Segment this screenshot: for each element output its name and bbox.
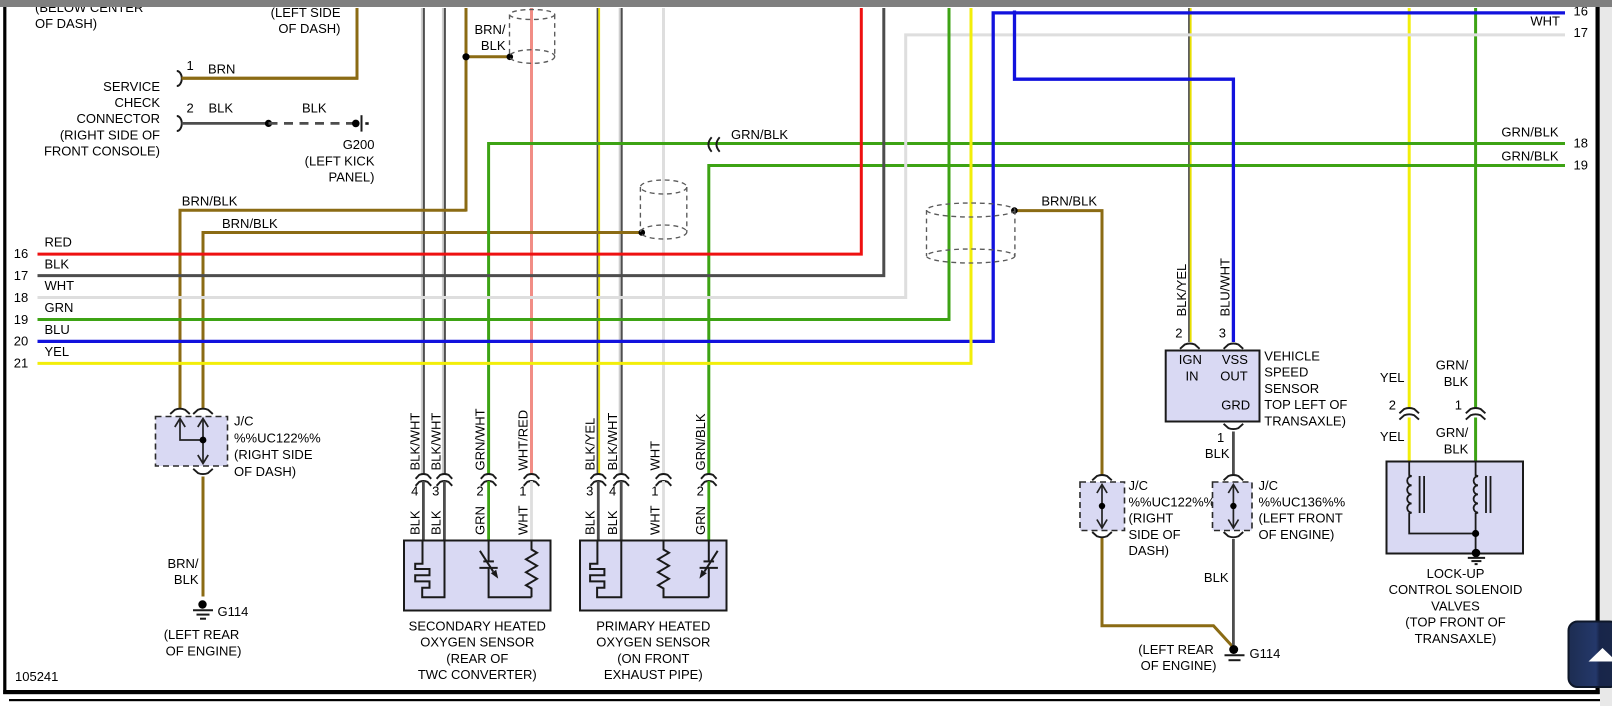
- svg-text:LOCK-UP: LOCK-UP: [1427, 566, 1485, 581]
- svg-text:OF ENGINE): OF ENGINE): [1259, 527, 1335, 542]
- in-line connector arcs secondary O2 pin 1: [524, 474, 540, 486]
- svg-text:GRD: GRD: [1221, 398, 1250, 413]
- sensing element primary (variable with arrow): [700, 541, 718, 598]
- top gray bar: [0, 0, 1612, 7]
- svg-text:BLK/WHT: BLK/WHT: [428, 413, 443, 471]
- frame bottom thin line: [9, 699, 1600, 701]
- J/C left internal junction dot: [200, 437, 207, 444]
- wire BLK secondary pin 3 below connector: [443, 481, 446, 541]
- heater element primary: [590, 541, 621, 598]
- in-line connector arcs on YEL wire: [1399, 408, 1419, 420]
- svg-text:19: 19: [1574, 158, 1588, 173]
- svg-text:SIDE OF: SIDE OF: [1129, 527, 1181, 542]
- svg-text:BLK: BLK: [582, 510, 597, 535]
- svg-text:21: 21: [14, 356, 28, 371]
- svg-text:18: 18: [1574, 136, 1588, 151]
- svg-text:EXHAUST PIPE): EXHAUST PIPE): [604, 667, 703, 682]
- svg-text:BLU: BLU: [45, 322, 70, 337]
- svg-text:WHT: WHT: [1530, 14, 1560, 29]
- svg-text:BLK: BLK: [45, 256, 70, 271]
- wire 21 YEL bus: [38, 8, 972, 363]
- svg-text:BRN: BRN: [208, 62, 235, 77]
- svg-text:WHT: WHT: [648, 441, 663, 471]
- connector arc below J/C UC136: [1224, 532, 1244, 537]
- wire GRN/BLK vertical to lock-up solenoid pin 1: [1474, 8, 1477, 408]
- svg-text:BRN/: BRN/: [167, 556, 198, 571]
- label BRN/BLK: [167, 556, 198, 587]
- wire BRN/BLK from J/C left to ground G114: [202, 477, 205, 597]
- svg-text:BRN/BLK: BRN/BLK: [182, 194, 238, 209]
- svg-text:VSS: VSS: [1222, 352, 1248, 367]
- svg-text:4: 4: [609, 484, 616, 499]
- junction connector J/C UC122 right instance box: [1080, 482, 1125, 531]
- svg-text:3: 3: [432, 484, 439, 499]
- heater element secondary: [415, 541, 444, 598]
- wire GRN/BLK 18 horizontal from right edge, down to secondary O2 sensor pin 2: [489, 144, 1565, 474]
- svg-text:(LEFT KICK: (LEFT KICK: [305, 153, 375, 168]
- J/C UC136 internal arrows: [1228, 485, 1238, 529]
- resistor primary: [658, 541, 709, 598]
- wire BLK secondary pin 4 below connector: [422, 481, 425, 541]
- wire BLK service connector pin 2 solid segment: [182, 122, 269, 125]
- connector arc below J/C UC122 right: [1092, 532, 1112, 537]
- wire BLU/WHT branch from wire 16 to vehicle speed sensor pin 3: [1015, 11, 1234, 343]
- svg-text:1: 1: [1455, 398, 1462, 413]
- label LOCK-UP CONTROL SOLENOID VALVES (TOP FRONT OF TRANSAXLE): [1389, 566, 1523, 646]
- svg-text:OF ENGINE): OF ENGINE): [1141, 658, 1217, 673]
- label G200 (LEFT KICK PANEL): [305, 137, 375, 184]
- wire BLK primary pin 4 below connector: [620, 481, 623, 541]
- svg-text:J/C: J/C: [1129, 478, 1149, 493]
- label J/C %%UC136%% (LEFT FRONT OF ENGINE): [1259, 478, 1346, 542]
- svg-text:SENSOR: SENSOR: [1264, 381, 1319, 396]
- svg-text:BLK: BLK: [481, 38, 506, 53]
- svg-text:BLK: BLK: [605, 510, 620, 535]
- wire GRN secondary pin 2 below connector: [487, 481, 490, 541]
- wire 18 WHT bus to right edge label 17: [38, 35, 1566, 298]
- wire WHT secondary pin 1 below connector: [530, 481, 533, 541]
- wire BLK/YEL vertical to primary O2 sensor pin 3: [598, 8, 600, 474]
- connector arc vehicle speed sensor pin 3: [1224, 344, 1244, 349]
- svg-text:G114: G114: [1250, 646, 1281, 661]
- wire BLK dashed segment to G200: [269, 122, 354, 125]
- svg-text:OXYGEN SENSOR: OXYGEN SENSOR: [420, 635, 534, 650]
- svg-text:IN: IN: [1186, 368, 1199, 383]
- connector arc above J/C left pin B: [193, 409, 213, 414]
- svg-text:IGN: IGN: [1179, 352, 1202, 367]
- wire GRN/BLK 19 horizontal from right edge, down to primary O2 sensor pin 2: [709, 166, 1565, 474]
- svg-text:BLK/WHT: BLK/WHT: [407, 413, 422, 471]
- svg-text:TRANSAXLE): TRANSAXLE): [1264, 413, 1346, 428]
- svg-text:4: 4: [411, 484, 418, 499]
- svg-text:BRN/: BRN/: [474, 22, 505, 37]
- svg-text:BRN/BLK: BRN/BLK: [1041, 193, 1097, 208]
- J/C UC122 right internal dot: [1099, 503, 1105, 509]
- svg-text:YEL: YEL: [1380, 370, 1405, 385]
- junction dot on BRN vertical: [462, 53, 469, 60]
- wire BRN/BLK from connector C2 to J/C UC122 right pin: [203, 233, 642, 409]
- labels IGN IN / VSS OUT / GRD: [1179, 352, 1250, 413]
- connector arc above J/C left pin A: [170, 409, 190, 414]
- svg-text:BLK: BLK: [302, 101, 327, 116]
- svg-text:18: 18: [14, 290, 28, 305]
- lock-up control solenoid valves box: [1387, 462, 1524, 554]
- svg-text:CONTROL SOLENOID: CONTROL SOLENOID: [1389, 582, 1523, 597]
- svg-text:SECONDARY HEATED: SECONDARY HEATED: [409, 618, 546, 633]
- svg-text:YEL: YEL: [1380, 429, 1405, 444]
- svg-text:OXYGEN SENSOR: OXYGEN SENSOR: [596, 635, 710, 650]
- svg-text:OF DASH): OF DASH): [278, 21, 340, 36]
- svg-text:2: 2: [1389, 398, 1396, 413]
- wire BLK/WHT vertical to primary O2 sensor pin 4: [620, 8, 622, 474]
- label J/C %%UC122%% (RIGHT SIDE OF DASH): [1129, 478, 1216, 558]
- solenoid coil left: [1407, 462, 1475, 534]
- svg-text:OF DASH): OF DASH): [35, 16, 97, 31]
- wire 19 GRN bus: [38, 8, 950, 320]
- wire BRN/BLK from J/C UC122 right instance to ground G114: [1102, 537, 1233, 647]
- in-line connector arcs primary O2 pin 4: [613, 474, 629, 486]
- terminal dot at connector C1: [507, 54, 514, 61]
- svg-text:BLK: BLK: [1444, 441, 1469, 456]
- wire BRN/BLK from junction to J/C UC122 left pin: [180, 210, 467, 408]
- svg-text:1: 1: [519, 484, 526, 499]
- connector arc above J/C UC136: [1224, 475, 1244, 480]
- wire BRN branch to dashed connector C1: [466, 55, 510, 58]
- junction dot inside solenoid box: [1472, 530, 1479, 537]
- pin numbers secondary 4 3 2 1: [411, 484, 526, 499]
- wire BRN vertical from (LEFT SIDE OF DASH) to service connector pin 1: [182, 8, 358, 78]
- svg-text:BLK: BLK: [1444, 374, 1469, 389]
- svg-text:3: 3: [1219, 326, 1226, 341]
- svg-text:(LEFT FRONT: (LEFT FRONT: [1259, 511, 1343, 526]
- svg-text:2: 2: [697, 484, 704, 499]
- svg-text:OUT: OUT: [1220, 368, 1248, 383]
- svg-text:PRIMARY HEATED: PRIMARY HEATED: [596, 618, 710, 633]
- svg-text:(ON FRONT: (ON FRONT: [617, 651, 689, 666]
- svg-text:RED: RED: [45, 235, 72, 250]
- in-line connector arcs primary O2 pin 1: [656, 474, 672, 486]
- svg-text:J/C: J/C: [234, 414, 254, 429]
- svg-text:SPEED: SPEED: [1264, 365, 1308, 380]
- svg-text:BLK: BLK: [407, 510, 422, 535]
- svg-text:GRN: GRN: [693, 506, 708, 535]
- service check connector pin 2 terminal: [177, 116, 182, 131]
- svg-text:105241: 105241: [15, 669, 58, 684]
- svg-text:(LEFT SIDE: (LEFT SIDE: [271, 5, 341, 20]
- svg-text:GRN/BLK: GRN/BLK: [1501, 149, 1558, 164]
- svg-text:1: 1: [651, 484, 658, 499]
- label PRIMARY HEATED OXYGEN SENSOR (ON FRONT EXHAUST PIPE): [596, 618, 710, 682]
- svg-text:TRANSAXLE): TRANSAXLE): [1415, 631, 1497, 646]
- svg-text:(LEFT REAR: (LEFT REAR: [164, 627, 240, 642]
- in-line connector arcs primary O2 pin 3: [591, 474, 607, 486]
- svg-text:DASH): DASH): [1129, 543, 1169, 558]
- J/C UC122 right internal arrows: [1097, 485, 1107, 529]
- svg-text:G200: G200: [343, 137, 375, 152]
- wire BRN service connector pin 1: [182, 77, 359, 80]
- svg-text:(RIGHT SIDE OF: (RIGHT SIDE OF: [60, 127, 160, 142]
- svg-text:BLK/WHT: BLK/WHT: [605, 413, 620, 471]
- svg-text:16: 16: [14, 246, 28, 261]
- wire BRN/BLK from connector C3 to J/C UC122 right instance: [1014, 211, 1102, 475]
- frame bottom border: [3, 690, 1600, 694]
- svg-text:BLK: BLK: [428, 510, 443, 535]
- svg-text:(RIGHT SIDE: (RIGHT SIDE: [234, 447, 313, 462]
- wire 20 BLU bus to right edge label 16: [38, 13, 1566, 342]
- svg-text:BLK: BLK: [1205, 446, 1230, 461]
- label BRN/BLK at dashed connector C1: [474, 22, 505, 53]
- frame left border: [3, 7, 6, 694]
- ground G114 left: [193, 600, 213, 618]
- resistor secondary: [526, 541, 537, 598]
- svg-text:3: 3: [586, 484, 593, 499]
- terminal dot at connector C3: [1011, 207, 1018, 214]
- svg-text:GRN/: GRN/: [1436, 358, 1469, 373]
- wire YEL vertical to lock-up solenoid pin 2: [1408, 8, 1411, 408]
- service check connector pin 1 terminal: [177, 71, 182, 86]
- label J/C %%UC122%% (RIGHT SIDE OF DASH): [234, 414, 321, 479]
- wire GRN primary pin 2 below connector: [707, 481, 710, 541]
- svg-text:BLU/WHT: BLU/WHT: [1217, 258, 1232, 317]
- svg-text:SERVICE: SERVICE: [103, 79, 160, 94]
- wire BLK/WHT vertical to secondary O2 sensor pin 3: [443, 8, 445, 474]
- label (LEFT REAR OF ENGINE): [164, 627, 242, 658]
- svg-text:(TOP FRONT OF: (TOP FRONT OF: [1405, 615, 1505, 630]
- label VEHICLE SPEED SENSOR TOP LEFT OF TRANSAXLE): [1264, 349, 1347, 429]
- label (LEFT REAR OF ENGINE): [1138, 642, 1216, 673]
- wire BRN vertical with junction to dashed connector C1: [465, 8, 468, 212]
- svg-text:OF ENGINE): OF ENGINE): [166, 643, 242, 658]
- in-line connector arcs secondary O2 pin 3: [437, 474, 453, 486]
- svg-text:GRN/: GRN/: [1436, 425, 1469, 440]
- wire 17 BLK bus: [38, 8, 884, 276]
- svg-text:(RIGHT: (RIGHT: [1129, 511, 1174, 526]
- wire WHT primary pin 1 below connector: [662, 481, 665, 541]
- primary heated oxygen sensor box: [580, 541, 727, 611]
- wire 16 RED bus: [38, 8, 862, 254]
- svg-text:PANEL): PANEL): [329, 170, 375, 185]
- svg-text:20: 20: [14, 334, 28, 349]
- label SECONDARY HEATED OXYGEN SENSOR (REAR OF TWC CONVERTER): [409, 618, 546, 682]
- label GRN/BLK below connector: [1436, 425, 1469, 456]
- splice dot: [265, 120, 272, 127]
- svg-text:BLK/YEL: BLK/YEL: [1174, 264, 1189, 317]
- svg-text:2: 2: [1175, 326, 1182, 341]
- svg-text:J/C: J/C: [1259, 478, 1279, 493]
- dashed connector C2: [640, 180, 686, 239]
- svg-text:BLK: BLK: [174, 572, 199, 587]
- ground dot and symbol below solenoid box: [1468, 549, 1485, 564]
- in-line connector arcs secondary O2 pin 4: [416, 474, 432, 486]
- svg-text:1: 1: [187, 58, 194, 73]
- J/C left internal arrows: [175, 419, 208, 464]
- wire BLK/WHT vertical to secondary O2 sensor pin 4: [422, 8, 424, 474]
- in-line connector arcs on GRN/BLK wire: [1466, 408, 1486, 420]
- connector arc vehicle speed sensor pin 2: [1180, 344, 1200, 349]
- svg-text:1: 1: [1217, 430, 1224, 445]
- in-line connector arcs secondary O2 pin 2: [481, 474, 497, 486]
- svg-text:GRN: GRN: [45, 300, 74, 315]
- svg-text:GRN/BLK: GRN/BLK: [693, 413, 708, 470]
- svg-text:WHT: WHT: [45, 278, 75, 293]
- svg-text:OF DASH): OF DASH): [234, 464, 296, 479]
- svg-text:TOP LEFT OF: TOP LEFT OF: [1264, 397, 1347, 412]
- svg-text:BLK/YEL: BLK/YEL: [582, 418, 597, 471]
- svg-text:19: 19: [14, 312, 28, 327]
- scrollbar track right edge: [1600, 0, 1612, 706]
- svg-text:%%UC136%%: %%UC136%%: [1259, 494, 1346, 509]
- secondary heated oxygen sensor box: [404, 541, 551, 611]
- connector arc below vehicle speed sensor GRD pin: [1224, 424, 1244, 429]
- vehicle speed sensor box: [1166, 351, 1260, 422]
- label GRN/BLK above connector: [1436, 358, 1469, 389]
- svg-text:VALVES: VALVES: [1431, 598, 1480, 613]
- pin numbers primary 3 4 1 2: [586, 484, 704, 499]
- svg-text:FRONT CONSOLE): FRONT CONSOLE): [44, 144, 160, 159]
- svg-text:TWC CONVERTER): TWC CONVERTER): [418, 667, 537, 682]
- svg-text:CONNECTOR: CONNECTOR: [76, 111, 160, 126]
- svg-text:WHT/RED: WHT/RED: [516, 410, 531, 471]
- solenoid coil right: [1474, 462, 1491, 554]
- dashed connector C1 (firewall grommet): [509, 10, 554, 64]
- svg-text:BLK: BLK: [209, 101, 234, 116]
- service check connector caption: [44, 79, 160, 159]
- svg-text:CHECK: CHECK: [114, 95, 160, 110]
- svg-text:GRN/BLK: GRN/BLK: [731, 127, 788, 142]
- ground G200 symbol: [352, 115, 369, 131]
- wire BLK from J/C UC136 to ground G114: [1232, 539, 1235, 645]
- in-line connector arcs primary O2 pin 2: [701, 474, 717, 486]
- wire WHT vertical to primary O2 sensor pin 1: [662, 8, 665, 474]
- wire WHT/RED vertical to secondary O2 sensor pin 1: [530, 8, 533, 474]
- J/C UC136 internal dot: [1230, 503, 1236, 509]
- svg-text:WHT: WHT: [648, 505, 663, 535]
- svg-text:17: 17: [14, 268, 28, 283]
- svg-text:2: 2: [187, 101, 194, 116]
- svg-text:%%UC122%%: %%UC122%%: [1129, 494, 1216, 509]
- ground G114 right: [1225, 645, 1245, 660]
- terminal dot at connector C2: [639, 229, 646, 236]
- svg-text:VEHICLE: VEHICLE: [1264, 349, 1320, 364]
- svg-text:GRN: GRN: [473, 506, 488, 535]
- wire BLK primary pin 3 below connector: [597, 481, 600, 541]
- svg-text:17: 17: [1574, 25, 1588, 40]
- svg-text:GRN/WHT: GRN/WHT: [473, 408, 488, 470]
- frame right border: [1596, 7, 1600, 694]
- svg-text:%%UC122%%: %%UC122%%: [234, 430, 321, 445]
- svg-text:2: 2: [476, 484, 483, 499]
- svg-text:BLK: BLK: [1204, 570, 1229, 585]
- connector arc below J/C left: [193, 469, 213, 474]
- connector arc above J/C UC122 right: [1092, 475, 1112, 480]
- wire BLK/YEL vertical to vehicle speed sensor pin 2: [1189, 8, 1191, 342]
- svg-text:BRN/BLK: BRN/BLK: [222, 216, 278, 231]
- scroll-to-top button: [1569, 622, 1612, 688]
- junction connector J/C UC136 box: [1213, 482, 1253, 531]
- dashed connector C3: [927, 203, 1015, 263]
- sensing element secondary (variable with arrow): [479, 541, 531, 598]
- in-line connector break on wire 18: [708, 137, 719, 151]
- svg-text:YEL: YEL: [45, 344, 70, 359]
- svg-text:G114: G114: [218, 604, 249, 619]
- svg-text:(LEFT REAR: (LEFT REAR: [1138, 642, 1214, 657]
- svg-text:WHT: WHT: [516, 505, 531, 535]
- svg-text:GRN/BLK: GRN/BLK: [1501, 124, 1558, 139]
- svg-text:(REAR OF: (REAR OF: [446, 651, 508, 666]
- wire BLK from vehicle speed sensor GRD to J/C UC136: [1232, 432, 1235, 476]
- junction connector J/C UC122 left box: [156, 417, 228, 467]
